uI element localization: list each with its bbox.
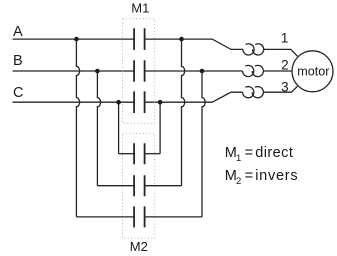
wire M2-2 left lead from B-left	[97, 185, 134, 187]
overload heater OL1	[243, 44, 264, 55]
wire phase A horizontal	[13, 38, 135, 40]
svg-text:M2: M2	[130, 239, 148, 254]
wire phase C after M1 contact, diagonal up to heater 3	[145, 92, 243, 102]
junction dot C-left	[116, 100, 121, 105]
wire phase A after M1 contact, diagonal down to heater 1	[145, 39, 243, 49]
svg-text:=: =	[245, 168, 253, 184]
junction dot A-right	[179, 37, 184, 42]
wire motor line 1	[264, 49, 298, 56]
legend M2 = invers	[225, 168, 299, 187]
wire M2-1 left lead from C-left	[119, 153, 135, 155]
contact M1-B bars	[134, 60, 145, 82]
svg-text:=: =	[245, 145, 253, 161]
contact M1-C bars	[134, 91, 145, 113]
wire vertical from A-right with hops over B and C	[182, 39, 185, 186]
contact M2-1 bars	[134, 143, 145, 164]
wire vertical from B-right with hop over C	[202, 71, 205, 217]
wire vertical from B-left with hop over C	[97, 71, 100, 186]
legend M1 = direct	[225, 145, 294, 164]
motor M circle	[292, 51, 333, 92]
wire phase C horizontal	[13, 101, 135, 103]
svg-text:3: 3	[281, 80, 289, 95]
svg-text:C: C	[13, 85, 23, 101]
junction dot A-left	[74, 37, 79, 42]
wire phase B horizontal	[13, 70, 135, 72]
svg-text:2: 2	[236, 176, 241, 187]
wire vertical from C-left	[118, 102, 120, 154]
contact M2-3 bars	[134, 206, 145, 227]
svg-text:1: 1	[281, 31, 289, 46]
svg-text:1: 1	[236, 153, 241, 164]
svg-text:A: A	[13, 24, 23, 40]
overload heater OL2	[243, 65, 264, 76]
wire vertical from A-left with hops over B and C	[76, 39, 79, 217]
svg-text:invers: invers	[255, 168, 298, 184]
contactor M2 dotted enclosure	[123, 133, 155, 238]
wire M2-3 left lead from A-left	[76, 216, 134, 218]
contact M1-A bars	[134, 28, 145, 50]
junction dot C-right	[158, 100, 163, 105]
junction dot B-left	[95, 69, 100, 74]
svg-text:direct: direct	[255, 145, 293, 161]
wire phase B after M1 contact to heater 2	[145, 70, 243, 72]
wire M2-1 right lead to C-right	[145, 153, 161, 155]
contact M2-2 bars	[134, 175, 145, 196]
wire M2-2 right lead to A-right	[145, 185, 182, 187]
svg-text:M1: M1	[131, 1, 149, 16]
contactor M1 dotted enclosure	[123, 19, 155, 124]
svg-text:motor: motor	[297, 64, 329, 78]
svg-text:2: 2	[281, 57, 289, 72]
wire M2-3 right lead to B-right	[145, 216, 202, 218]
svg-text:B: B	[13, 53, 23, 69]
wire motor line 3	[263, 86, 297, 92]
wire vertical from C-right	[159, 102, 161, 154]
overload heater OL3	[243, 87, 264, 98]
junction dot B-right	[200, 69, 205, 74]
wire motor line 2	[263, 70, 292, 72]
